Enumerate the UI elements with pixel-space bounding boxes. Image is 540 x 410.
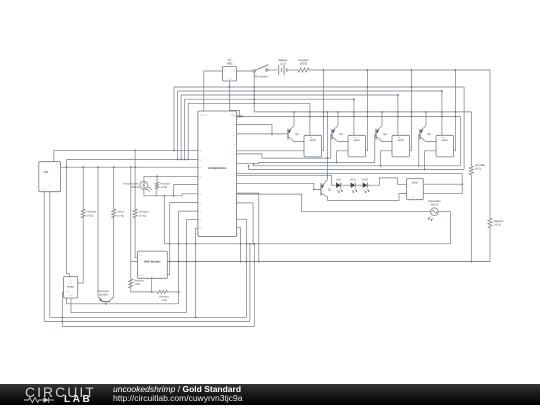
resistor R9 100 (488, 216, 504, 230)
wire (353, 99, 355, 135)
resistor R7 1k (129, 167, 144, 290)
svg-text:LED: LED (336, 178, 341, 181)
ic U1 ArduinoUno (198, 111, 237, 236)
wire (438, 211, 450, 213)
wire (253, 72, 255, 112)
node (151, 291, 153, 293)
resistor R2 10k (81, 167, 96, 220)
svg-text:A0: A0 (199, 202, 201, 205)
wire (326, 112, 328, 180)
wire (397, 95, 399, 135)
svg-text:M3: M3 (398, 136, 400, 139)
svg-text:A0: A0 (199, 193, 201, 196)
motor M4 (436, 135, 454, 157)
wire (135, 220, 137, 258)
node (105, 303, 107, 305)
node (418, 165, 420, 167)
svg-text:Q5: Q5 (427, 133, 431, 136)
svg-text:6: 6 (234, 182, 235, 185)
svg-text:7: 7 (234, 173, 235, 176)
wire (450, 212, 452, 244)
wire (311, 69, 490, 71)
svg-text:Resistor: Resistor (494, 220, 504, 223)
motor M2 (348, 135, 366, 157)
transistor Q2 (288, 112, 304, 142)
svg-text:12: 12 (233, 124, 235, 127)
transistor Q1 (321, 180, 332, 200)
wire (164, 243, 450, 245)
wire (243, 115, 460, 117)
wire (181, 95, 398, 159)
svg-text:Resistor: Resistor (159, 296, 169, 299)
node (271, 133, 273, 135)
node (248, 165, 250, 167)
wire (144, 195, 182, 197)
wire (49, 192, 51, 318)
svg-text:100 Ω: 100 Ω (494, 223, 501, 226)
photoresistor R4 (124, 181, 152, 192)
svg-text:4: 4 (234, 202, 235, 205)
wire (50, 316, 247, 318)
svg-text:P1: P1 (43, 188, 45, 191)
battery V1 12V (279, 58, 288, 75)
svg-text:Motor: Motor (398, 139, 405, 142)
transistor Q4 (376, 112, 392, 142)
svg-text:M4: M4 (442, 136, 444, 139)
ic U4 WiFi (138, 251, 168, 278)
svg-text:A0: A0 (199, 175, 201, 178)
wire (65, 298, 67, 304)
wire (66, 303, 178, 305)
svg-text:A0: A0 (199, 158, 201, 161)
motor M3 (392, 135, 410, 157)
svg-text:M5: M5 (412, 196, 414, 199)
wire (174, 184, 198, 186)
svg-text:LED1: LED1 (350, 178, 357, 181)
wire (67, 158, 198, 160)
wire (246, 219, 248, 317)
node (173, 86, 412, 151)
svg-text:Resistor: Resistor (160, 183, 170, 186)
svg-text:Gnd: Gnd (69, 282, 72, 285)
wire (252, 203, 254, 244)
transistor Q6 2N3906 (98, 290, 114, 304)
wire (287, 69, 296, 71)
svg-text:2N3906: 2N3906 (99, 293, 109, 296)
svg-text:3.3: 3.3 (139, 254, 141, 257)
led LED2 (362, 178, 370, 192)
svg-text:Motor: Motor (442, 139, 449, 142)
wire (230, 81, 240, 116)
wire (381, 151, 392, 166)
svg-text:Resistor: Resistor (134, 280, 144, 283)
svg-text:IR (Rx): IR (Rx) (67, 286, 74, 289)
wire (61, 166, 198, 168)
wire (255, 111, 472, 113)
wire (62, 325, 254, 327)
svg-text:5V0 (+5): 5V0 (+5) (200, 113, 208, 116)
svg-text:10 kΩ: 10 kΩ (139, 214, 146, 217)
node (425, 111, 456, 117)
wire (366, 70, 368, 151)
wire (186, 219, 198, 221)
svg-text:P2: P2 (49, 185, 51, 188)
node (173, 195, 175, 197)
wire (62, 292, 63, 326)
svg-text:WiFi Module: WiFi Module (144, 260, 161, 264)
ic pin labels (199, 116, 235, 230)
node (424, 169, 426, 171)
wire (97, 167, 99, 297)
wire (461, 173, 463, 193)
node (163, 195, 165, 197)
wire (204, 70, 223, 72)
wire (167, 203, 198, 275)
wire (237, 125, 272, 134)
svg-text:Q4: Q4 (383, 133, 387, 136)
node (353, 98, 355, 100)
wire (268, 69, 278, 71)
node (313, 188, 315, 190)
node (336, 161, 338, 163)
node (178, 291, 180, 293)
wire (44, 320, 250, 322)
led LED1 (350, 178, 358, 192)
resistor R10 encoder (469, 164, 485, 177)
svg-text:Q1: Q1 (328, 188, 332, 191)
wire (173, 185, 175, 196)
svg-text:Subwoofer: Subwoofer (428, 200, 441, 203)
switch SW1 Kill Switch (253, 65, 268, 79)
node (293, 111, 324, 117)
wire (237, 227, 241, 229)
node (381, 111, 412, 117)
wire (240, 228, 242, 262)
footer bar (0, 384, 540, 405)
wire (419, 134, 420, 165)
node (134, 149, 136, 151)
wire (423, 183, 462, 185)
svg-text:Motor: Motor (412, 182, 419, 185)
subwoofer SPK1 (428, 200, 441, 221)
wire (470, 177, 472, 262)
wire (71, 312, 186, 314)
ic U2 RPi (39, 162, 61, 192)
node (195, 316, 197, 318)
svg-text:ArduinoUno: ArduinoUno (208, 166, 226, 170)
wire (425, 151, 436, 170)
svg-text:1 kΩ: 1 kΩ (161, 299, 166, 302)
wire (195, 228, 197, 317)
resistor R3 servo (112, 167, 125, 220)
wire (237, 192, 259, 194)
node (470, 261, 472, 263)
wire (67, 159, 70, 276)
svg-text:A0: A0 (199, 227, 201, 230)
svg-text:Servo: Servo (117, 211, 124, 214)
svg-text:Ana: Ana (70, 294, 73, 297)
wire (237, 183, 321, 189)
wire (423, 193, 462, 195)
led LED (336, 178, 343, 192)
svg-text:Q2: Q2 (295, 133, 299, 136)
circuitlab logo (25, 384, 96, 400)
wire (237, 194, 431, 212)
wire (155, 191, 157, 196)
node (240, 261, 260, 263)
wire (144, 175, 198, 177)
node (397, 94, 399, 96)
resistor R8 1k (131, 290, 179, 302)
wire (237, 133, 288, 135)
svg-text:A0: A0 (199, 149, 201, 152)
svg-text:10: 10 (233, 143, 235, 146)
node (156, 175, 158, 177)
node (322, 69, 456, 71)
node (66, 166, 137, 168)
wire (237, 175, 337, 185)
wire (182, 194, 198, 196)
svg-text:Encoder: Encoder (475, 164, 485, 167)
svg-text:500 Ω: 500 Ω (431, 204, 438, 207)
wire (237, 70, 253, 72)
wire (367, 178, 406, 185)
wire (237, 172, 463, 174)
node (61, 316, 63, 322)
svg-text:Resistor: Resistor (87, 211, 97, 214)
svg-text:Dig: Dig (66, 290, 69, 293)
wire (170, 261, 490, 263)
wire (178, 211, 180, 304)
wire (237, 218, 247, 220)
svg-text:A0: A0 (199, 210, 201, 213)
wire (113, 220, 115, 297)
node (169, 243, 197, 263)
svg-text:Photoresistor: Photoresistor (124, 182, 139, 185)
wire (179, 210, 198, 212)
wire (309, 103, 311, 135)
svg-text:7805: 7805 (226, 61, 233, 65)
svg-text:Q3: Q3 (339, 133, 343, 136)
svg-text:A0: A0 (199, 166, 201, 169)
ic U5 IR (64, 277, 78, 298)
svg-text:A0: A0 (199, 218, 201, 221)
wire (43, 192, 45, 322)
wire (327, 194, 406, 201)
wire (459, 116, 461, 165)
svg-text:12 V: 12 V (280, 61, 286, 65)
svg-text:10 kΩ: 10 kΩ (117, 214, 124, 217)
wire (237, 134, 332, 158)
wire (454, 70, 456, 151)
wire (253, 244, 255, 327)
svg-text:in: in (70, 278, 71, 281)
wire (237, 150, 304, 152)
wire (178, 91, 442, 159)
wire (185, 99, 354, 159)
node (461, 183, 463, 185)
node (441, 90, 443, 92)
node (380, 165, 382, 167)
svg-text:M1: M1 (310, 136, 312, 139)
wire (156, 176, 158, 180)
node (337, 111, 368, 117)
voltage regulator VR1 7805 (223, 58, 237, 81)
svg-text:Kill Switch: Kill Switch (254, 74, 268, 78)
wire (355, 184, 363, 186)
wire (143, 189, 145, 196)
wire (185, 220, 187, 313)
svg-text:Transistor: Transistor (98, 290, 110, 293)
motor M1 (304, 135, 322, 157)
wire (237, 134, 376, 163)
resistor R5 10k (155, 180, 170, 191)
wire (196, 227, 198, 229)
svg-text:3: 3 (234, 212, 235, 215)
ground bar (236, 115, 244, 117)
wire (188, 103, 310, 159)
transistor Q3 (332, 112, 348, 142)
svg-text:RPi: RPi (44, 170, 49, 174)
wire (489, 230, 491, 262)
wire (163, 196, 165, 244)
wire (131, 261, 490, 263)
wire (249, 166, 465, 170)
svg-text:11: 11 (233, 133, 235, 136)
node (326, 111, 328, 176)
svg-text:10 kΩ: 10 kΩ (160, 186, 167, 189)
wire (258, 193, 260, 262)
node (240, 243, 256, 245)
transistor Q5 (420, 112, 436, 142)
svg-text:Motor: Motor (310, 139, 317, 142)
svg-text:90 Ω: 90 Ω (475, 167, 481, 170)
wire (254, 164, 461, 166)
wire (470, 112, 472, 164)
resistor R1 100 (296, 58, 311, 72)
wire (322, 70, 324, 151)
node (177, 158, 189, 160)
wire (151, 278, 153, 292)
wire (78, 220, 84, 283)
svg-text:100 Ω: 100 Ω (300, 61, 308, 65)
motor M5 (407, 179, 424, 200)
svg-text:5: 5 (234, 192, 235, 195)
svg-text:8: 8 (234, 163, 235, 166)
svg-text:M2: M2 (354, 136, 356, 139)
wire (203, 71, 205, 111)
wire (237, 202, 254, 204)
svg-text:LED2: LED2 (362, 178, 369, 181)
wire (54, 150, 198, 161)
wire (463, 87, 465, 170)
wire (174, 87, 464, 150)
svg-text:1 kΩ: 1 kΩ (134, 283, 139, 286)
wire (489, 70, 491, 216)
wire (341, 184, 351, 186)
node (253, 86, 255, 104)
wire (337, 151, 348, 163)
wire (143, 176, 145, 181)
wire (249, 244, 251, 322)
svg-text:Resistor: Resistor (139, 211, 149, 214)
svg-text:2: 2 (234, 222, 235, 225)
wire (410, 70, 412, 151)
wire (70, 298, 72, 313)
resistor R6 10k (133, 150, 149, 220)
svg-text:9: 9 (234, 153, 235, 156)
wire (441, 91, 443, 135)
svg-text:13: 13 (233, 116, 235, 119)
svg-text:Motor: Motor (354, 139, 361, 142)
svg-text:10 kΩ: 10 kΩ (87, 214, 94, 217)
node (253, 163, 255, 165)
